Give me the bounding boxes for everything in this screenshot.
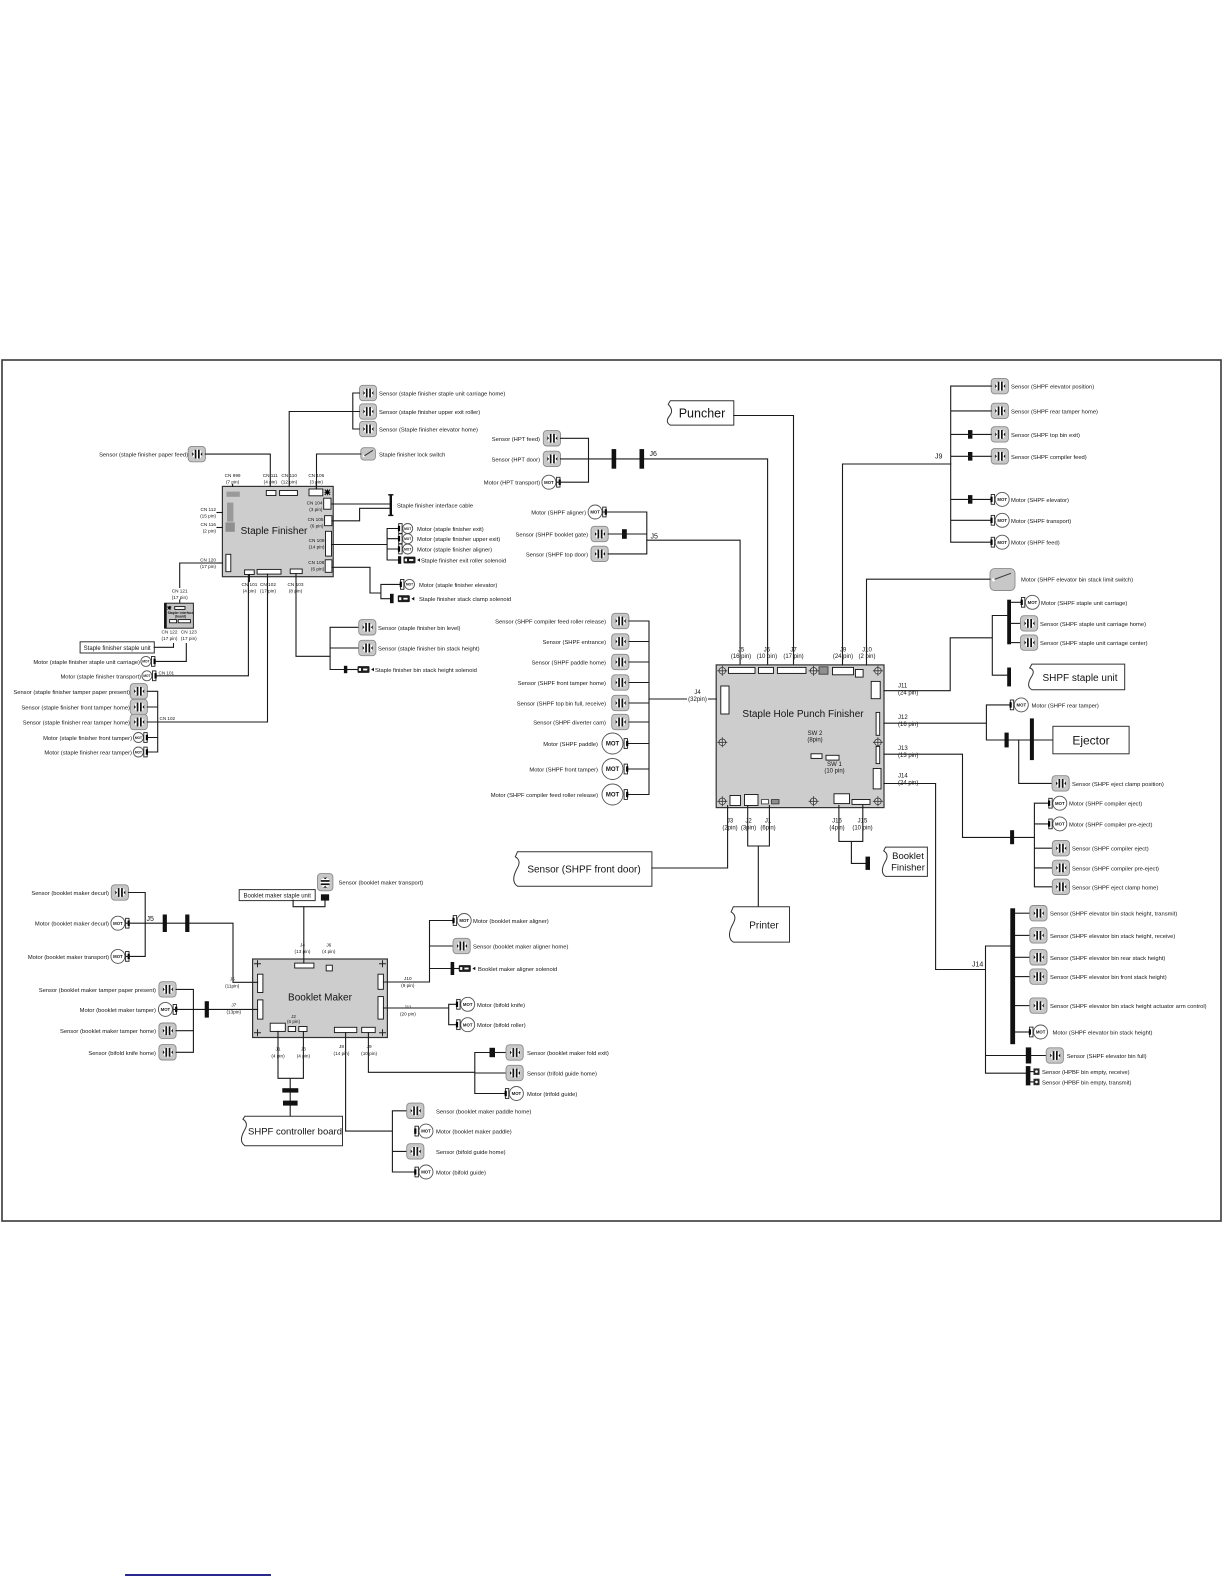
- svg-text:(17 pin): (17 pin): [260, 589, 276, 594]
- svg-text:J9: J9: [840, 648, 847, 654]
- motor (SHPF front tamper): [529, 759, 628, 780]
- connector CN 102: [257, 569, 281, 574]
- connector J10 bm: [378, 974, 383, 989]
- svg-text:CN 121: CN 121: [172, 589, 188, 594]
- svg-text:Puncher: Puncher: [679, 407, 726, 421]
- sensor (SHPF elevator bin full): [1026, 1047, 1147, 1063]
- connector CN 122 on board: [170, 620, 177, 623]
- screw bm bottom-left: [255, 1030, 261, 1036]
- svg-text:CN 122: CN 122: [162, 630, 178, 635]
- svg-text:SHPF controller board: SHPF controller board: [248, 1127, 342, 1138]
- wire staple unit carriage motor to CN 123: [156, 644, 187, 662]
- connector CN 123 on board: [178, 620, 190, 623]
- wire transport motor to CN 101: [157, 575, 250, 676]
- label J14 (24 pin): [898, 774, 918, 787]
- label J10 (2 pin): [858, 648, 875, 661]
- svg-text:Booklet: Booklet: [892, 851, 924, 862]
- fold exit connector bar: [490, 1048, 496, 1057]
- svg-text:CN 109: CN 109: [309, 538, 325, 543]
- svg-text:Motor (staple finisher exit): Motor (staple finisher exit): [417, 527, 484, 533]
- svg-text:Sensor (SHPF elevator bin stac: Sensor (SHPF elevator bin stack height a…: [1050, 1004, 1207, 1010]
- staple hole punch finisher board box: [716, 665, 884, 808]
- svg-text:J6: J6: [650, 451, 658, 458]
- svg-text:Sensor (Staple finisher elevat: Sensor (Staple finisher elevator home): [379, 428, 478, 434]
- motor (staple finisher transport): [60, 671, 174, 681]
- sensor (SHPF compiler feed roller release): [495, 613, 629, 628]
- svg-text:Sensor (staple finisher staple: Sensor (staple finisher staple unit carr…: [379, 392, 505, 398]
- label J16 (4pin): [829, 819, 844, 832]
- svg-text:(11pin): (11pin): [225, 984, 240, 989]
- label J4 (13 pin) bm: [295, 943, 311, 955]
- label CN 106 (3 pin): [308, 473, 324, 489]
- label J6 (4 pin) bm: [322, 943, 336, 955]
- wire J6 main with cable connectors: [589, 459, 768, 665]
- sensor (SHPF elevator bin stack height, receive): [1015, 928, 1175, 943]
- svg-text:Motor (SHPF front tamper): Motor (SHPF front tamper): [529, 768, 598, 774]
- screw mid-right: [873, 738, 882, 747]
- label J5 (16 pin): [731, 648, 751, 661]
- svg-text:Motor (trifold guide): Motor (trifold guide): [527, 1092, 577, 1098]
- svg-text:CN 112: CN 112: [200, 507, 216, 512]
- J14 thick bus bar: [1010, 908, 1015, 1044]
- sensor (SHPF elevator bin rear stack height): [1015, 950, 1165, 965]
- cable connector pair J5 bm: [163, 915, 167, 933]
- compiler group connector bar: [1010, 830, 1014, 844]
- sensor (HPT door): [491, 451, 560, 466]
- SHPF front group wires: [603, 512, 646, 554]
- sensor (SHPF elevator bin stack height actuator arm control): [1015, 998, 1207, 1013]
- svg-text:Staple finisher lock switch: Staple finisher lock switch: [379, 453, 445, 459]
- label CN 103 (8 pin): [288, 582, 304, 594]
- connector J10: [855, 670, 863, 678]
- motor (staple finisher upper exit): [398, 534, 500, 544]
- wire CN 108 to elevator group: [332, 567, 400, 598]
- label J7 (13pin) bm: [227, 1003, 242, 1015]
- screw mid-left: [718, 738, 727, 747]
- svg-text:J5: J5: [651, 534, 659, 541]
- SHPF controller board callout: [241, 1116, 342, 1145]
- sensor (SHPF staple unit carriage center): [1011, 635, 1148, 650]
- svg-text:Motor (SHPF compiler feed roll: Motor (SHPF compiler feed roller release…: [491, 793, 598, 799]
- motor (SHPF paddle): [543, 733, 628, 754]
- connector J6: [759, 667, 774, 673]
- svg-text:(4 pin): (4 pin): [243, 589, 257, 594]
- screw top-right: [873, 666, 882, 675]
- sensor (SHPF top bin full, receive): [517, 695, 629, 710]
- connector J6 bm: [326, 965, 332, 971]
- booklet finisher callout: [882, 847, 927, 876]
- label J2 (3pin): [741, 819, 756, 832]
- svg-text:Sensor (HPBF bin empty, transm: Sensor (HPBF bin empty, transmit): [1042, 1080, 1132, 1086]
- svg-text:CN 116: CN 116: [200, 522, 216, 527]
- sensor (staple finisher paper feed): [99, 446, 205, 461]
- staple finisher bin stack height solenoid: [344, 666, 477, 674]
- wire lock switch to CN 106: [317, 454, 361, 489]
- sensor (SHPF compiler feed): [968, 449, 1087, 464]
- label CN 999 (7 pin): [225, 473, 241, 486]
- motor (SHPF feed): [990, 535, 1059, 549]
- svg-text:CN 104: CN 104: [307, 501, 323, 506]
- svg-text:Finisher: Finisher: [891, 862, 925, 873]
- puncher callout: [667, 401, 733, 425]
- svg-text:Staple finisher interface cabl: Staple finisher interface cable: [397, 504, 473, 510]
- svg-text:Sensor (booklet maker transpor: Sensor (booklet maker transport): [339, 881, 424, 887]
- svg-text:(6 pin): (6 pin): [311, 567, 325, 572]
- svg-text:J14: J14: [972, 962, 983, 969]
- svg-text:(2pin): (2pin): [722, 826, 737, 832]
- svg-text:Motor (SHPF paddle): Motor (SHPF paddle): [543, 742, 598, 748]
- sensor (HPT feed): [492, 431, 561, 446]
- svg-text:Sensor (SHPF rear tamper home): Sensor (SHPF rear tamper home): [1011, 409, 1098, 415]
- connector CN 108: [325, 560, 332, 573]
- connector CN 101: [245, 570, 255, 575]
- svg-text:J6: J6: [326, 943, 331, 948]
- footer rule: [126, 1574, 270, 1576]
- motor (staple finisher front tamper): [43, 733, 148, 743]
- switch SW2 connector: [811, 754, 822, 759]
- tamper group bus wires: [147, 691, 157, 752]
- connector J5 bm: [258, 974, 263, 992]
- sensor (SHPF elevator bin stack height, transmit): [1015, 906, 1177, 921]
- svg-text:Sensor (HPBF bin empty, receiv: Sensor (HPBF bin empty, receive): [1042, 1070, 1130, 1076]
- SHPF staple unit callout: [1029, 664, 1125, 690]
- svg-text:J7: J7: [231, 1003, 236, 1008]
- label CN 120 (17 pin): [200, 558, 222, 570]
- sensor (SHPF paddle home): [532, 654, 629, 669]
- sensor (staple finisher staple unit carriage home): [359, 385, 505, 400]
- motor (SHPF transport): [990, 513, 1071, 527]
- printer callout: [729, 907, 789, 942]
- svg-text:CN 123: CN 123: [181, 630, 197, 635]
- svg-text:Sensor (SHPF elevator position: Sensor (SHPF elevator position): [1011, 385, 1094, 391]
- connector J2: [745, 795, 759, 806]
- SHPF staple unit connector bar: [1007, 668, 1011, 687]
- wire J2/J1 to printer: [748, 806, 770, 907]
- motor (booklet maker aligner): [452, 914, 548, 928]
- sensor (booklet maker fold exit): [495, 1045, 609, 1060]
- svg-text:(14 pin): (14 pin): [334, 1051, 350, 1056]
- connector small gray 2: [772, 800, 780, 804]
- sensor (booklet maker tamper paper present): [39, 982, 176, 997]
- stapler interface board box: [164, 603, 193, 628]
- svg-text:(10 pin): (10 pin): [824, 769, 844, 775]
- svg-text:Sensor (booklet maker fold exi: Sensor (booklet maker fold exit): [527, 1051, 609, 1057]
- svg-text:Motor (SHPF elevator): Motor (SHPF elevator): [1011, 498, 1069, 504]
- label CN 122 (17 pin): [162, 630, 178, 642]
- staple finisher stack clamp solenoid: [390, 594, 511, 603]
- HPT group wires: [558, 438, 589, 482]
- svg-text:(10 pin): (10 pin): [757, 654, 777, 660]
- svg-text:Staple finisher stack clamp so: Staple finisher stack clamp solenoid: [419, 597, 511, 603]
- svg-text:Motor (booklet maker transport: Motor (booklet maker transport): [28, 955, 109, 961]
- label CN 121 (17 pin): [172, 589, 188, 607]
- motor (SHPF rear tamper): [1010, 698, 1099, 712]
- connector CN 109: [326, 531, 332, 556]
- svg-text:CN 999: CN 999: [225, 473, 241, 478]
- svg-text:(4pin): (4pin): [829, 826, 844, 832]
- sensor (HPBF bin empty, receive): [1030, 1068, 1129, 1076]
- motor (bifold roller): [456, 1018, 526, 1032]
- sensor (staple finisher tamper paper present): [13, 684, 147, 699]
- sensor (staple finisher bin stack height): [359, 640, 480, 655]
- svg-text:Sensor (SHPF eject clamp posit: Sensor (SHPF eject clamp position): [1072, 782, 1164, 788]
- svg-text:(9 pin): (9 pin): [401, 983, 415, 988]
- svg-text:Motor (bifold roller): Motor (bifold roller): [477, 1023, 526, 1029]
- label CN 104 (3 pin): [307, 501, 323, 513]
- motor (SHPF staple unit carriage): [1011, 595, 1127, 609]
- sensor (bifold knife home): [88, 1045, 176, 1060]
- label J3 (4 pin) bm: [297, 1046, 311, 1058]
- svg-text:(3 pin): (3 pin): [309, 507, 323, 512]
- ejector box: [1053, 726, 1129, 754]
- svg-text:Booklet maker staple unit: Booklet maker staple unit: [244, 894, 312, 900]
- wire J10 bm to aligner group: [383, 921, 453, 983]
- wire CN 103 to bin group: [296, 574, 359, 670]
- svg-text:Booklet maker aligner solenoid: Booklet maker aligner solenoid: [478, 967, 557, 973]
- label CN 101 (4 pin): [241, 575, 257, 594]
- sensor (booklet maker aligner home): [453, 938, 568, 953]
- label J11 (20 pin) bm: [400, 1004, 416, 1016]
- svg-text:(14 pin): (14 pin): [309, 545, 325, 550]
- motor (SHPF compiler feed roller release): [491, 784, 629, 805]
- svg-text:J5: J5: [230, 977, 235, 982]
- slot connector (dark) left square: [225, 522, 234, 531]
- wire J4 bus to box: [649, 698, 716, 700]
- motor (bifold guide): [414, 1165, 486, 1179]
- wire CN 120 to stapler interface board: [180, 563, 223, 588]
- svg-text:Sensor (booklet maker tamper p: Sensor (booklet maker tamper paper prese…: [39, 988, 156, 994]
- svg-text:(6 pin): (6 pin): [287, 1019, 300, 1024]
- staple finisher board box: [222, 486, 333, 576]
- connector CN 120: [226, 554, 231, 571]
- svg-text:(6pin): (6pin): [760, 826, 775, 832]
- svg-text:(16 pin): (16 pin): [731, 654, 751, 660]
- connector CN 121 on board: [175, 607, 185, 610]
- svg-text:Motor (bifold knife): Motor (bifold knife): [477, 1003, 525, 1009]
- connector J13: [876, 746, 880, 763]
- sensor (staple finisher front tamper home): [21, 699, 147, 714]
- sensor (booklet maker transport): [318, 874, 424, 901]
- sensor (booklet maker tamper home): [60, 1023, 176, 1038]
- svg-text:(24 pin): (24 pin): [898, 691, 918, 697]
- sensor (staple finisher bin level): [359, 620, 461, 635]
- sensor (SHPF elevator bin front stack height): [1015, 969, 1167, 984]
- switch SW1 connector: [826, 755, 839, 760]
- motor (booklet maker transport): [28, 949, 130, 963]
- label CN 105 (6 pin): [308, 517, 324, 529]
- label J12 (16 pin): [898, 715, 918, 728]
- svg-text:Sensor (SHPF elevator bin stac: Sensor (SHPF elevator bin stack height, …: [1050, 934, 1175, 940]
- wire J5 to box: [647, 540, 740, 665]
- connector J11: [871, 681, 880, 698]
- connector J7 bm: [258, 1000, 263, 1019]
- motor (staple finisher aligner): [398, 544, 492, 554]
- sensor (HPBF bin empty, transmit): [1030, 1079, 1131, 1087]
- svg-text:Motor (booklet maker tamper): Motor (booklet maker tamper): [80, 1008, 156, 1014]
- svg-text:Sensor (SHPF front tamper home: Sensor (SHPF front tamper home): [518, 681, 606, 687]
- svg-text:Sensor (booklet maker aligner: Sensor (booklet maker aligner home): [473, 945, 568, 951]
- label J15 (10 pin): [852, 819, 872, 832]
- svg-text:(2 pin): (2 pin): [203, 529, 217, 534]
- label J3 (2pin): [722, 819, 737, 832]
- connector J5: [729, 667, 756, 673]
- tamper group wires to J7: [174, 989, 258, 1052]
- connector J9: [833, 667, 854, 674]
- svg-text:Sensor (SHPF elevator bin full: Sensor (SHPF elevator bin full): [1067, 1054, 1147, 1060]
- label CN 102 (17 pin): [260, 582, 276, 594]
- label CN 110 (12 pin): [281, 473, 297, 485]
- motor (SHPF compiler pre-eject): [1048, 817, 1152, 831]
- svg-text:J1: J1: [765, 819, 772, 825]
- decurl group wires to J5: [126, 893, 257, 983]
- svg-text:Motor (staple finisher elevato: Motor (staple finisher elevator): [419, 583, 497, 589]
- svg-text:Sensor (SHPF staple unit carri: Sensor (SHPF staple unit carriage center…: [1040, 641, 1148, 647]
- booklet maker aligner solenoid: [451, 962, 558, 975]
- svg-text:Sensor (staple finisher bin st: Sensor (staple finisher bin stack height…: [378, 647, 480, 653]
- connector J16: [834, 794, 850, 804]
- svg-text:Motor (SHPF rear tamper): Motor (SHPF rear tamper): [1032, 703, 1099, 709]
- svg-text:J9: J9: [367, 1044, 372, 1049]
- svg-text:(15 pin): (15 pin): [200, 514, 216, 519]
- svg-text:J5: J5: [738, 648, 745, 654]
- svg-text:Motor (SHPF staple unit carria: Motor (SHPF staple unit carriage): [1041, 601, 1127, 607]
- svg-text:Sensor (SHPF elevator bin rear: Sensor (SHPF elevator bin rear stack hei…: [1050, 956, 1165, 962]
- screw bm top-left: [255, 961, 261, 967]
- staple finisher lock switch: [361, 448, 446, 460]
- sensor (SHPF compiler eject): [1052, 841, 1148, 856]
- svg-text:Sensor (SHPF compiler pre-ejec: Sensor (SHPF compiler pre-eject): [1072, 866, 1159, 872]
- connector CN 104: [324, 498, 331, 509]
- screw bottom-right: [873, 797, 882, 806]
- svg-text:J11: J11: [898, 684, 908, 690]
- svg-text:Motor (SHPF elevator bin stack: Motor (SHPF elevator bin stack limit swi…: [1021, 578, 1133, 584]
- motor (booklet maker decurl): [35, 916, 130, 930]
- page frame: [2, 360, 1221, 1221]
- svg-text:Sensor (SHPF paddle home): Sensor (SHPF paddle home): [532, 661, 606, 667]
- svg-text:Sensor (booklet maker decurl): Sensor (booklet maker decurl): [31, 891, 109, 897]
- svg-text:J12: J12: [898, 715, 908, 721]
- svg-text:Motor (SHPF compiler pre-eject: Motor (SHPF compiler pre-eject): [1069, 822, 1152, 828]
- sensor (trifold guide home): [506, 1065, 597, 1080]
- label J13 (13 pin): [898, 746, 918, 759]
- sensor (booklet maker decurl): [31, 885, 128, 900]
- motor (SHPF compiler eject): [1048, 796, 1142, 810]
- wire J9 bus to box: [843, 464, 951, 665]
- motor (booklet maker tamper): [80, 1002, 178, 1016]
- motor (staple finisher elevator): [400, 579, 498, 589]
- wire J12 to rear tamper / ejector junction: [884, 705, 1053, 740]
- svg-text:Sensor (SHPF compiler feed): Sensor (SHPF compiler feed): [1011, 455, 1087, 461]
- label CN 111 (4 pin): [263, 473, 279, 485]
- svg-text:Sensor (SHPF elevator bin fron: Sensor (SHPF elevator bin front stack he…: [1050, 975, 1167, 981]
- connector J2 bm: [288, 1027, 295, 1032]
- svg-text:(10 pin): (10 pin): [361, 1051, 377, 1056]
- svg-text:(7 pin): (7 pin): [226, 480, 240, 485]
- sensor (SHPF compiler pre-eject): [1052, 860, 1159, 875]
- label J11 (24 pin): [898, 684, 918, 697]
- svg-text:(17 pin): (17 pin): [181, 636, 197, 641]
- connector J12: [876, 712, 880, 735]
- wire puncher to J7: [734, 416, 794, 665]
- svg-text:Motor (staple finisher upper e: Motor (staple finisher upper exit): [417, 537, 500, 543]
- svg-text:Motor (bifold guide): Motor (bifold guide): [436, 1171, 486, 1177]
- label CN 108 (6 pin): [308, 560, 324, 572]
- svg-text:CN 105: CN 105: [308, 517, 324, 522]
- svg-text:Sensor (HPT feed): Sensor (HPT feed): [492, 437, 540, 443]
- svg-text:Staple finisher staple unit: Staple finisher staple unit: [84, 646, 151, 652]
- svg-text:Sensor (SHPF staple unit carri: Sensor (SHPF staple unit carriage home): [1040, 622, 1146, 628]
- label J6 (10 pin): [757, 648, 777, 661]
- svg-text:Sensor (staple finisher tamper: Sensor (staple finisher tamper paper pre…: [13, 690, 130, 696]
- svg-text:J10: J10: [404, 976, 412, 981]
- screw top-left: [718, 666, 727, 675]
- booklet maker board box: [253, 959, 388, 1038]
- label CN 112 (15 pin): [200, 507, 222, 519]
- wire CN 104 to interface cable: [331, 503, 390, 505]
- svg-text:(17 pin): (17 pin): [172, 595, 188, 600]
- screw bottom-mid: [809, 797, 818, 806]
- motor (booklet maker paddle): [414, 1124, 512, 1138]
- svg-text:Printer: Printer: [749, 921, 779, 932]
- svg-text:J13: J13: [898, 746, 908, 752]
- svg-text:(8pin): (8pin): [807, 738, 822, 744]
- wire front door box to J3: [652, 806, 728, 869]
- svg-text:Sensor (SHPF top bin exit): Sensor (SHPF top bin exit): [1011, 433, 1080, 439]
- svg-text:J4: J4: [300, 943, 305, 948]
- J9 column bus wires: [951, 386, 992, 542]
- connector J15: [852, 800, 870, 805]
- wire CN 109 to motor bus: [332, 529, 399, 561]
- svg-text:CN 101: CN 101: [159, 671, 175, 676]
- svg-text:J7: J7: [790, 648, 797, 654]
- svg-text:Sensor (SHPF top door): Sensor (SHPF top door): [526, 552, 588, 558]
- svg-text:Motor (staple finisher staple: Motor (staple finisher staple unit carri…: [33, 660, 140, 666]
- svg-text:Sensor (staple finisher upper: Sensor (staple finisher upper exit rolle…: [379, 410, 480, 416]
- svg-text:J2: J2: [745, 819, 752, 825]
- booklet finisher connector bar: [866, 857, 871, 870]
- motor (staple finisher staple unit carriage): [33, 656, 155, 666]
- motor (SHPF elevator bin stack height): [1015, 1025, 1152, 1039]
- screw bottom-left: [718, 797, 727, 806]
- svg-text:(32pin): (32pin): [688, 697, 707, 703]
- J4 column bus wires: [628, 621, 649, 795]
- screw (star) staple finisher top-right: [324, 489, 331, 496]
- slot connector (dark) top-left: [226, 492, 239, 497]
- svg-text:Sensor (bifold guide home): Sensor (bifold guide home): [436, 1150, 506, 1156]
- connector CN 111: [266, 491, 276, 496]
- svg-text:Booklet Maker: Booklet Maker: [288, 992, 353, 1003]
- svg-text:Motor (staple finisher front t: Motor (staple finisher front tamper): [43, 736, 132, 742]
- label J7 (17 pin): [783, 648, 803, 661]
- connector J4: [721, 686, 729, 714]
- sensor (SHPF front door) box callout: [514, 852, 652, 887]
- svg-text:(3pin): (3pin): [741, 826, 756, 832]
- connector J1 bm: [270, 1023, 285, 1031]
- svg-text:CN 108: CN 108: [308, 560, 324, 565]
- svg-text:Sensor (SHPF elevator bin stac: Sensor (SHPF elevator bin stack height, …: [1050, 912, 1177, 918]
- connector J11 bm: [378, 997, 383, 1020]
- svg-text:Sensor (SHPF diverter cam): Sensor (SHPF diverter cam): [533, 721, 606, 727]
- svg-text:(13 pin): (13 pin): [295, 949, 311, 954]
- svg-text:(4 pin): (4 pin): [322, 949, 336, 954]
- label SW 2 (8pin): [807, 731, 823, 744]
- wire J1/J3 to controller board: [278, 1031, 303, 1116]
- sensor (SHPF top door): [526, 546, 608, 561]
- svg-text:Motor (staple finisher rear ta: Motor (staple finisher rear tamper): [44, 751, 132, 757]
- svg-text:Sensor (SHPF top bin full, rec: Sensor (SHPF top bin full, receive): [517, 702, 606, 708]
- wire J11 to staple unit group: [884, 616, 1007, 691]
- label J5 (11pin) bm: [225, 977, 240, 989]
